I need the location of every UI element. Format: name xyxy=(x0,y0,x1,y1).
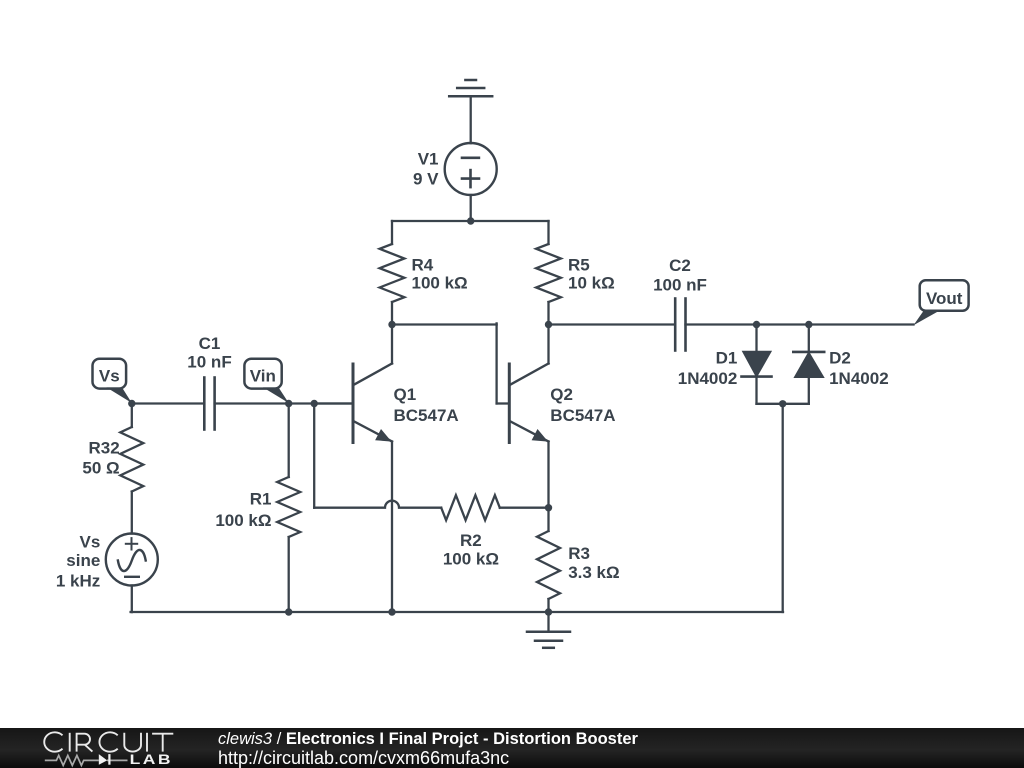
label R2 100 kΩ xyxy=(443,531,499,569)
resistor R5 10 kΩ xyxy=(536,221,561,325)
wire C1 to Q1 base node xyxy=(215,402,353,404)
resistor R4 100 kΩ xyxy=(380,221,405,325)
node junction R5/Q2 collector xyxy=(545,321,552,328)
wire diode return to ground rail xyxy=(782,404,784,612)
label C2 100 nF xyxy=(653,256,707,295)
svg-text:Vs: Vs xyxy=(99,366,120,385)
svg-text:C1: C1 xyxy=(199,334,221,353)
node junction diode return xyxy=(779,400,786,407)
svg-text:Vin: Vin xyxy=(250,366,276,385)
svg-text:D1: D1 xyxy=(716,348,738,367)
capacitor C2 100 nF xyxy=(675,299,685,351)
node junction base branch xyxy=(311,400,318,407)
node junction D2 xyxy=(805,321,812,328)
label Q2 BC547A xyxy=(550,385,615,425)
capacitor C1 10 nF xyxy=(204,378,214,430)
wire Q1 base xyxy=(314,402,353,404)
node junction R3/ground rail xyxy=(545,608,552,615)
label R4 100 kΩ xyxy=(412,255,468,292)
svg-text:C2: C2 xyxy=(669,256,691,275)
wire Q1 collector to Q2 base xyxy=(392,323,509,403)
wire V1 to top rail xyxy=(470,195,472,221)
top supply rail wire xyxy=(392,220,549,222)
svg-text:R3: R3 xyxy=(568,544,590,563)
svg-text:100 kΩ: 100 kΩ xyxy=(412,274,468,293)
label R32 50 Ω xyxy=(82,438,119,477)
svg-text:R32: R32 xyxy=(89,438,120,457)
svg-text:V1: V1 xyxy=(418,149,439,168)
node junction Q1 emitter/ground rail xyxy=(388,608,395,615)
svg-text:R1: R1 xyxy=(250,490,272,509)
ground (bottom) xyxy=(527,612,570,648)
diode D1 1N4002 (cathode down) xyxy=(742,325,772,404)
svg-text:100 kΩ: 100 kΩ xyxy=(215,511,271,530)
ground rail wire xyxy=(131,611,783,613)
voltage source Vs sine 1 kHz xyxy=(106,534,158,586)
svg-text:100 nF: 100 nF xyxy=(653,275,707,294)
CircuitLab logo diode symbol xyxy=(99,754,111,765)
resistor R3 3.3 kΩ xyxy=(537,508,560,612)
svg-text:50 Ω: 50 Ω xyxy=(82,459,119,478)
voltage source V1 (9 V battery symbol) xyxy=(445,143,497,195)
node junction R4/Q1 collector xyxy=(388,321,395,328)
transistor Q1 BC547A (NPN) xyxy=(353,325,392,613)
flag Vs xyxy=(93,359,132,403)
svg-text:10 kΩ: 10 kΩ xyxy=(568,274,615,293)
CircuitLab logo wordmark CIRCUIT (drawn letters) xyxy=(44,732,173,751)
flag Vin xyxy=(244,359,288,403)
wire Q2 collector rail to C2 xyxy=(549,323,676,325)
resistor R2 100 kΩ xyxy=(441,495,548,520)
svg-text:1N4002: 1N4002 xyxy=(829,369,889,388)
svg-text:D2: D2 xyxy=(829,348,851,367)
resistor R32 50 Ω xyxy=(120,404,143,534)
svg-text:R4: R4 xyxy=(412,255,434,274)
svg-text:R2: R2 xyxy=(460,531,482,550)
svg-text:Vs: Vs xyxy=(80,532,101,551)
diode D2 1N4002 (cathode up) xyxy=(793,325,824,404)
svg-text:BC547A: BC547A xyxy=(394,406,459,425)
label R5 10 kΩ xyxy=(568,255,615,292)
label R1 100 kΩ xyxy=(215,490,271,530)
svg-text:sine: sine xyxy=(66,551,100,570)
svg-text:3.3 kΩ: 3.3 kΩ xyxy=(568,563,619,582)
label R3 3.3 kΩ xyxy=(568,544,619,582)
label V1 9 V xyxy=(413,149,439,188)
svg-text:9 V: 9 V xyxy=(413,169,439,188)
svg-text:Q1: Q1 xyxy=(394,385,417,404)
wire Vs source to ground rail xyxy=(131,586,133,613)
label Q1 BC547A xyxy=(394,385,459,425)
node junction R2/R3/Q2 emitter xyxy=(545,504,552,511)
label Vs sine 1 kHz xyxy=(56,532,100,590)
svg-text:BC547A: BC547A xyxy=(550,406,615,425)
resistor R1 100 kΩ xyxy=(277,404,300,613)
svg-text:1 kHz: 1 kHz xyxy=(56,572,100,591)
wire diode bottom connector xyxy=(757,403,809,405)
svg-text:LAB: LAB xyxy=(130,753,173,768)
node junction Vs xyxy=(128,400,135,407)
wire base node down to R2 (with hop over Q1 emitter) xyxy=(314,404,441,508)
wire Vs node to C1 xyxy=(132,402,204,404)
CircuitLab logo resistor symbol xyxy=(45,755,128,765)
label D1 1N4002 xyxy=(678,348,738,388)
label D2 1N4002 xyxy=(829,348,889,388)
svg-text:100 kΩ: 100 kΩ xyxy=(443,549,499,568)
node junction V1/rail xyxy=(467,217,474,224)
svg-text:Q2: Q2 xyxy=(550,385,573,404)
label C1 10 nF xyxy=(187,334,231,372)
svg-text:R5: R5 xyxy=(568,255,590,274)
ground (top, at V1 negative terminal) xyxy=(449,80,492,96)
wire ground to V1 xyxy=(470,96,472,143)
transistor Q2 BC547A (NPN) xyxy=(509,325,548,508)
node junction R1/ground rail xyxy=(285,608,292,615)
node junction Vin/R1 xyxy=(285,400,292,407)
svg-text:1N4002: 1N4002 xyxy=(678,369,738,388)
node junction D1 xyxy=(753,321,760,328)
svg-text:10 nF: 10 nF xyxy=(187,353,231,372)
flag Vout xyxy=(914,280,969,325)
svg-text:Vout: Vout xyxy=(926,289,963,308)
wire C2 to Vout xyxy=(686,323,914,325)
